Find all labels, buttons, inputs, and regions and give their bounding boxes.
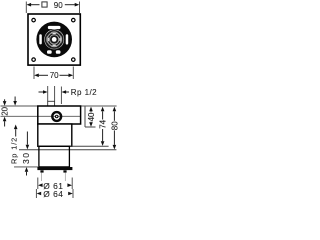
screw hole bottom-right	[72, 58, 76, 62]
wall step horizontal line	[85, 126, 96, 128]
dimension 20: bottom arrow pointing up	[3, 117, 7, 122]
flush housing box	[38, 124, 72, 146]
screw hole bottom-left	[32, 58, 36, 62]
knob handle gray collar	[47, 33, 61, 47]
escutcheon plate 90x90 front view	[28, 14, 80, 65]
nub extension line left	[41, 173, 43, 181]
dimension 74: top arrow pointing up	[101, 107, 105, 112]
dia 64: right extension line	[72, 189, 74, 198]
dimension 74: bottom arrow pointing down	[102, 129, 104, 141]
dimension 70: right extension line	[72, 67, 74, 80]
stop flange line extending left	[14, 166, 38, 168]
svg-text:90: 90	[54, 1, 63, 10]
body height top arrow pointing down	[14, 97, 16, 102]
knob slot west	[39, 34, 42, 44]
label Rp1/2: arrow pointing up at body bottom	[14, 125, 18, 130]
dia 64: left arrow pointing left	[37, 192, 42, 196]
dia 61: left extension line	[37, 178, 39, 190]
threaded sleeve box	[39, 146, 70, 167]
dimension 40: top arrow pointing up	[89, 107, 93, 112]
knob hub dark disc	[49, 34, 60, 45]
knob hub light ring	[50, 35, 59, 44]
wall step vertical line	[84, 107, 86, 128]
side port boss inner ring	[55, 115, 58, 118]
knob handle lobe NW	[47, 32, 53, 38]
dimension 70: left extension line	[33, 67, 35, 80]
side port boss outer ring	[52, 112, 61, 121]
dimension 90: square symbol	[42, 2, 47, 7]
knob handle lobe SE	[55, 41, 61, 47]
knob inner face	[44, 30, 64, 50]
dimension Rp1/2: mid extension line	[54, 86, 56, 101]
dimension Rp1/2: left extension line	[47, 86, 49, 101]
svg-text:70: 70	[50, 71, 59, 80]
dimension 20: top arrow pointing down	[4, 99, 6, 101]
svg-text:20: 20	[1, 106, 10, 115]
knob handle rim ring	[46, 31, 63, 48]
valve body housing rectangle	[38, 106, 81, 124]
dimension Rp1/2: right extension line	[60, 87, 62, 105]
knob handle lobe NE	[55, 32, 61, 38]
knob wing south-east	[56, 50, 61, 54]
svg-text:30: 30	[21, 152, 31, 164]
valve axis line	[1, 115, 81, 117]
stop flange black bar	[37, 167, 72, 170]
dimension 80: bottom arrow pointing down	[113, 130, 115, 145]
dia 61: right arrow pointing right	[67, 183, 72, 187]
svg-text:80: 80	[110, 121, 119, 130]
svg-text:40: 40	[87, 112, 96, 121]
min wall line 74 reference	[38, 145, 109, 147]
flange nub left	[40, 170, 43, 172]
nub extension line right	[64, 173, 66, 181]
dimension 90: right arrow	[75, 3, 80, 7]
knob grip notch north	[48, 26, 61, 29]
knob slot east	[66, 34, 69, 44]
svg-text:74: 74	[99, 119, 108, 128]
dimension 80: top arrow pointing up	[113, 107, 117, 112]
knob handle lobe SW	[47, 41, 53, 47]
knob wing south-west	[47, 50, 52, 54]
spindle stub	[48, 101, 55, 106]
dimension 40: bottom arrow pointing down	[90, 121, 92, 123]
dimension 90: right extension line	[79, 2, 81, 14]
svg-text:Rp 1/2: Rp 1/2	[10, 137, 19, 164]
dimension 30: top arrow pointing down	[26, 132, 28, 145]
dimension 90: left arrow	[27, 3, 32, 7]
knob outer sleeve ring	[36, 22, 72, 58]
dia 61: right extension line	[71, 178, 73, 190]
svg-text:Rp 1/2: Rp 1/2	[71, 88, 97, 97]
dimension Rp1/2: arrow pointing left	[62, 90, 67, 94]
screw hole top-right	[72, 18, 76, 22]
screw hole top-left	[32, 18, 36, 22]
dia 64: right arrow pointing right	[68, 192, 73, 196]
dimension 70: left arrow	[34, 74, 39, 78]
knob center	[52, 37, 57, 42]
max wall line 80 reference	[19, 149, 116, 151]
dimension 90: left extension line	[25, 2, 27, 14]
dia 61: left arrow pointing left	[38, 183, 43, 187]
shut-off handle knob front view	[36, 22, 72, 58]
flange nub right	[63, 170, 66, 172]
valve body top edge with extension lines both sides	[1, 105, 117, 107]
dia 64: left extension line	[35, 189, 37, 198]
dimension 70: right arrow	[69, 74, 74, 78]
dimension 30: bottom arrow pointing up	[25, 167, 29, 172]
svg-text:Ø 64: Ø 64	[43, 189, 63, 199]
dimension Rp1/2: arrow pointing right	[39, 91, 44, 93]
